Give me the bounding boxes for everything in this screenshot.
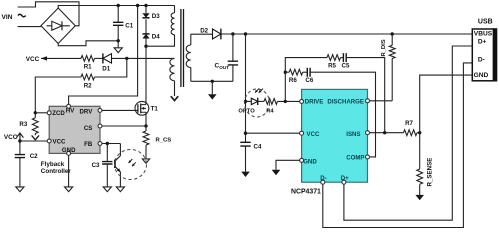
svg-text:VIN: VIN [2,14,13,21]
svg-text:C2: C2 [30,153,38,160]
svg-text:FB: FB [84,141,93,148]
pin D+ [341,175,349,184]
pin DRIVE [300,99,324,106]
pin GND (U1) [300,158,318,165]
svg-text:VCC: VCC [4,134,18,141]
capacitor C6 [305,68,313,84]
svg-text:R4: R4 [266,108,274,114]
wire opto led stub [246,100,252,102]
flyback controller U2 box [49,106,100,153]
resistor R_DIS [381,34,395,101]
node junction VBUS vert [244,32,247,35]
wire sense to USB GND [420,75,473,133]
phototransistor U3b [115,160,121,172]
wire ground stub C1 [117,41,119,48]
ground C3 [103,187,111,192]
resistor R5 [327,55,341,70]
svg-text:R_DIS: R_DIS [381,39,387,56]
svg-text:C3: C3 [92,162,100,169]
wire secondary top to D2 [191,33,213,35]
svg-text:R5: R5 [328,62,336,69]
pin CS [84,124,102,132]
resistor R_SENSE [417,133,434,195]
wire LED to R4 [258,100,264,102]
svg-text:NCP4371: NCP4371 [291,188,321,195]
transformer core [181,9,184,87]
diode D2 [200,28,221,40]
svg-text:COMP: COMP [346,155,364,162]
wire FB line [102,143,120,145]
node junction R7/RSENSE [418,131,421,134]
wire D3 top stub [145,6,147,14]
capacitor C1 [113,22,134,29]
resistor R7 [404,120,420,135]
wire drain to primary [146,35,175,47]
svg-text:R_SENSE: R_SENSE [427,158,434,187]
wire GND pin down [68,156,70,187]
diode D4 [142,34,160,41]
label GND (USB) [474,72,489,79]
svg-text:VCC: VCC [26,56,40,63]
svg-text:DRV: DRV [80,108,94,115]
transformer secondary winding [186,34,191,81]
wire RDIS to DISCHARGE [369,100,392,102]
svg-text:C1: C1 [125,23,133,30]
wire VCC net (U1) [246,132,300,134]
pin VCC (U1) [300,131,320,138]
svg-text:GND: GND [62,147,76,154]
wire VBUS rail [221,33,472,35]
svg-text:D+: D+ [341,175,349,182]
svg-text:ISNS: ISNS [346,131,360,138]
svg-text:D4: D4 [152,34,160,41]
svg-text:C6: C6 [305,77,313,84]
wire R2 to ZCD [35,77,81,113]
wire VIN top to bridge [18,2,79,26]
connector USB box [472,19,497,82]
svg-text:DISCHARGE: DISCHARGE [327,99,364,106]
wire C2 top [19,141,21,154]
resistor R4 [264,99,278,115]
capacitor C5 [342,53,350,69]
svg-text:GND: GND [474,72,489,79]
svg-text:VCC: VCC [307,131,320,138]
wire VCC to pin [20,140,47,142]
node VCC up-arrow label [4,133,24,141]
svg-text:HV: HV [66,107,75,114]
svg-text:T1: T1 [151,106,159,113]
arrow aux return below R3 [32,135,39,139]
svg-text:VBUS: VBUS [474,31,493,38]
pin DISCHARGE [327,99,369,106]
svg-text:D3: D3 [152,13,160,20]
wire opto collector [115,144,120,162]
wire GND (U1) [276,160,300,170]
svg-text:ZCD: ZCD [52,110,65,117]
arrow aux winding return [171,96,178,100]
wire D1 to aux line [112,57,175,59]
node junction HV top [136,4,139,7]
ground secondary [208,94,217,99]
svg-text:GND: GND [303,158,317,165]
node VCC left-arrow label [26,56,58,63]
node junction D3 top [144,4,147,7]
svg-text:C5: C5 [342,62,350,69]
node drain junction [144,45,147,48]
node junction DRIVE net [284,100,287,103]
wire drive net up [285,58,327,102]
pin VCC2 [47,139,66,146]
wire C4 bottom [245,146,247,171]
wire DC+ top rail [58,6,174,9]
capacitor C4 [240,142,262,150]
node junction CS/source [144,124,147,127]
wire R4 to DRIVE [278,100,300,102]
node junction C1 top [117,4,120,7]
wire ISNS line [369,132,403,134]
capacitor C3 [92,162,113,169]
svg-text:D-: D- [320,175,326,182]
node junction VCC tee [244,132,247,135]
svg-text:R3: R3 [19,121,27,128]
wire DRV to gate [102,109,138,111]
wire sec gnd stub [211,81,213,94]
pin ZCD [47,110,65,117]
pin DRV [80,108,102,115]
wire D3-D4 [145,19,147,34]
wire R5 to C5 [341,57,344,59]
wire HV net [69,6,138,105]
label Flyback Controller [41,161,72,175]
pin COMP [346,155,369,162]
wire T1 source [145,112,147,126]
label VBUS [474,31,493,38]
resistor R_CS [143,126,171,159]
svg-text:DRIVE: DRIVE [305,99,324,106]
ground U1 GND [272,170,281,175]
wire D+ route [344,46,472,220]
wire R6 branch [285,71,289,73]
svg-text:D+: D+ [478,38,487,45]
wire R1 to D1 [95,57,103,59]
node junction ISNS [383,131,386,134]
wire C5 to ISNS net [346,58,385,133]
node junction opto tee [244,100,247,103]
transformer aux winding [170,58,175,96]
optocoupler dashed body (LED side) [245,89,270,117]
node junction RDIS top [391,32,394,35]
svg-text:C4: C4 [254,143,262,150]
wire D4 bottom [145,39,147,47]
wire CS line [102,125,146,127]
opto LED [238,98,257,115]
node junction bottom rail [117,39,120,42]
wire C1 bottom [117,26,119,41]
svg-text:USB: USB [478,19,493,26]
ground opto emitter [116,187,124,192]
pin GND [62,147,76,155]
resistor R1 [81,56,95,71]
svg-text:D-: D- [478,57,485,64]
capacitor C2 [15,153,38,160]
wire opto emitter down [119,172,121,187]
wire C6 to COMP [310,72,375,157]
ground C4 [241,172,250,177]
wire R2 drop [95,58,127,77]
pin ISNS [346,131,369,138]
resistor R6 [289,69,303,84]
bridge rectifier BR1 [41,8,75,44]
ground C2 [16,187,24,192]
svg-text:R1: R1 [84,64,92,71]
node junction Cout top [231,32,234,35]
light arrows from LED [255,88,263,93]
svg-text:VCC: VCC [53,139,66,146]
wire VIN bottom to bridge [18,26,41,28]
svg-text:R7: R7 [405,120,413,127]
svg-text:Controller: Controller [41,168,72,175]
wire C1 top [117,6,119,23]
svg-text:OUT: OUT [219,65,229,70]
wire C3 top [106,144,108,162]
transformer primary winding [171,6,174,35]
label D- [478,57,485,64]
label D+ [478,38,487,45]
wire C2 bottom [19,158,21,187]
node junction FB/C3 [106,142,109,145]
wire R6 to C6 [303,71,308,73]
resistor R3 [19,113,38,135]
node junction sec gnd [211,80,214,83]
node junction VCC/C2 [18,139,21,142]
ground R_SENSE [415,195,424,200]
wire VBUS vertical [245,34,247,142]
transistor T1 [135,101,158,115]
optocoupler dashed body (transistor side) [115,150,147,180]
pin D- [320,175,326,184]
wire Cout bottom [232,65,234,81]
resistor R2 [81,74,95,89]
diode D1 [102,53,111,72]
pin HV [66,104,75,114]
svg-text:CS: CS [84,125,92,132]
svg-text:R6: R6 [289,77,297,84]
ground controller GND [65,187,73,192]
controller U1 NCP4371 box [291,89,368,195]
ground R_CS [142,159,149,163]
wire Cout top [232,34,234,61]
wire ZCD stub [35,112,47,114]
wire VCC to R1 [57,57,81,59]
svg-text:OPTO: OPTO [238,108,255,114]
diode D3 [142,13,160,20]
svg-text:D2: D2 [200,28,208,35]
node junction D1/R2 [125,57,128,60]
ground primary bulk [114,48,122,53]
capacitor C_OUT [215,61,239,70]
svg-text:R2: R2 [84,82,92,89]
node junction ZCD [34,111,37,114]
svg-text:D1: D1 [102,66,110,73]
wire drain to T1 [145,46,147,104]
svg-text:R_CS: R_CS [156,138,172,144]
pin FB [84,141,102,148]
node junction R6 tee [284,71,287,74]
wire bridge bottom rail [58,41,118,46]
svg-text:Flyback: Flyback [41,161,65,168]
wire C3 bottom [106,164,108,187]
wire D- route [323,63,473,228]
light arrows into transistor [129,159,136,166]
wire secondary bottom rail [191,80,233,82]
node VIN label [2,14,26,21]
